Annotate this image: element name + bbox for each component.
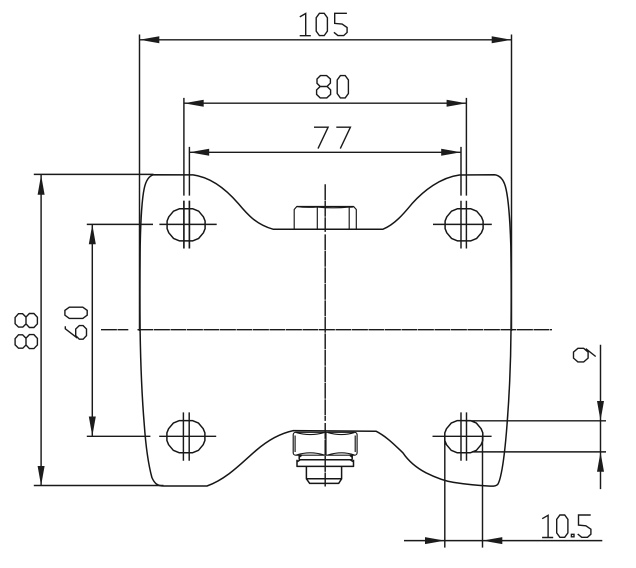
arrow 88 bottom [38, 466, 45, 486]
stud tip chamfer [306, 479, 341, 484]
label 9 (rotated) [574, 348, 596, 362]
label 88 (rotated) [15, 335, 37, 349]
dimension line 77 [189, 151, 461, 153]
extension line 88 top [34, 173, 154, 175]
extension line 77 left [188, 147, 190, 249]
label 10.5 [542, 515, 553, 537]
washer step 2 [297, 460, 354, 467]
dimension line 10.5 [404, 540, 602, 542]
dimension line 9 [600, 345, 602, 489]
arrow 105 right [492, 36, 512, 43]
arrow 88 top [38, 175, 45, 195]
horizontal centerline [101, 329, 552, 331]
arrowheads [38, 36, 604, 544]
extension line 9 top [465, 420, 606, 422]
arrow 80 left [184, 100, 204, 107]
mounting slot bottom-right [445, 421, 483, 453]
arrow 60 bottom [89, 417, 96, 437]
extension line 105 right [511, 35, 513, 332]
label 60 (rotated) [65, 326, 86, 340]
mounting slot top-left [167, 209, 205, 241]
arrow 77 left [189, 149, 209, 156]
arrow 9 top (outside, pointing down) [597, 401, 604, 421]
arrow 105 left [140, 36, 160, 43]
dimension line 105 [140, 39, 512, 41]
hole centerline bottom-right [433, 435, 492, 437]
arrow 77 right [441, 149, 461, 156]
washer step 1 [299, 455, 352, 460]
extension line 80 left [183, 98, 185, 249]
extension line 77 right [460, 147, 462, 249]
arrow 10.5 left (outside, pointing right) [425, 537, 445, 544]
arrow 60 top [89, 224, 96, 244]
extension line 9 bottom [472, 451, 606, 453]
dimension line 88 [40, 175, 42, 486]
label 80 [317, 76, 331, 98]
label 105 [300, 14, 311, 36]
kingpin bolt head (top hex) [294, 207, 356, 230]
mounting slot bottom-left [167, 421, 205, 453]
mounting slot top-right [445, 209, 483, 241]
stud [306, 466, 341, 478]
extension line 105 left [139, 35, 141, 332]
extension line 80 right [465, 98, 467, 249]
extension line 60 bottom / hole centerline bottom-left [87, 435, 216, 437]
axle nut (bottom hex) [293, 432, 357, 455]
arrow 80 right [447, 100, 467, 107]
arrow 9 bottom (outside, pointing up) [597, 452, 604, 472]
extension line 88 bottom [34, 485, 164, 487]
vertical centerline [324, 184, 326, 486]
hole centermarks vertical top-left [184, 201, 190, 249]
dimension line 60 [91, 224, 93, 436]
dimension line 80 [184, 102, 467, 104]
extension line 60 top / hole centerline top-left [87, 223, 217, 225]
hole centermarks vertical bottom-right [461, 412, 467, 460]
extension line 10.5 left [444, 436, 446, 547]
plate outline [140, 175, 511, 486]
hole centerline top-right [433, 223, 492, 225]
arrow 10.5 right (outside, pointing left) [483, 537, 503, 544]
extension line 10.5 right [482, 436, 484, 547]
hole centermarks vertical bottom-left [183, 412, 189, 460]
label 77 [314, 127, 328, 148]
